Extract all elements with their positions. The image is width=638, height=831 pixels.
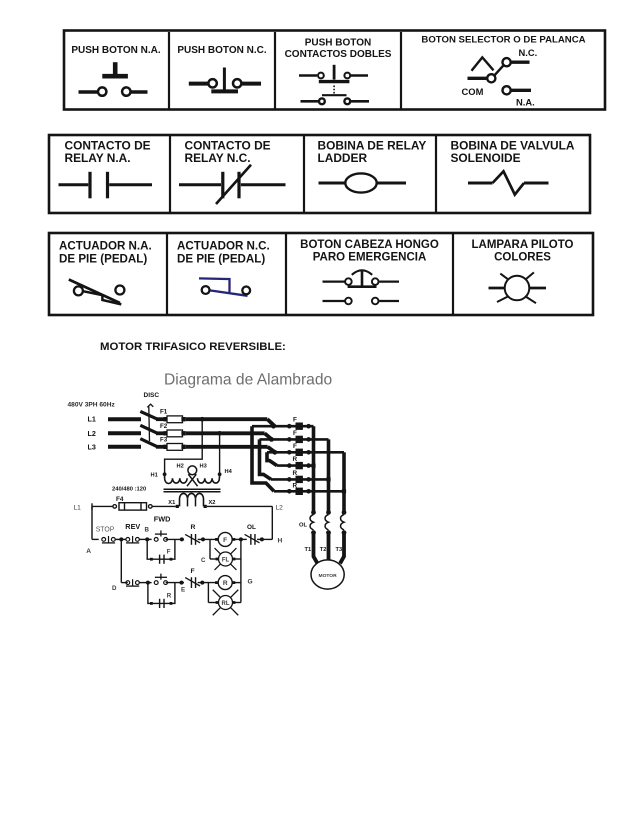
label H4 (225, 469, 233, 475)
wire control rail left (92, 503, 113, 509)
wire RL to common return (235, 602, 241, 604)
svg-text:L3: L3 (88, 443, 96, 452)
wire R contact to coil F (198, 537, 217, 541)
svg-text:CONTACTOS DOBLES: CONTACTOS DOBLES (285, 49, 392, 60)
fuse F2 (164, 430, 186, 437)
label X2 (209, 500, 216, 506)
wire F contact row 1 (252, 424, 314, 429)
svg-text:DE PIE (PEDAL): DE PIE (PEDAL) (177, 253, 265, 266)
wire L1 supply lead (108, 417, 141, 421)
wire FL to common return (235, 558, 241, 560)
wire motor lead 2 (327, 533, 331, 561)
wire R contact row 3 (274, 490, 344, 493)
wire motor lead 3 (340, 533, 344, 564)
node tap L2 to transformer (217, 431, 222, 436)
node X2 terminal (204, 505, 207, 508)
svg-text:R: R (223, 580, 228, 587)
wire F contact to coil R (198, 581, 217, 585)
svg-text:FL: FL (222, 557, 230, 563)
contactor R contact row 1 (287, 462, 311, 469)
pilot lamp FL (215, 548, 237, 570)
wire F contact row 3 (267, 450, 344, 455)
label ACTUADOR N.A. DE PIE (PEDAL) (59, 240, 152, 266)
svg-text:A: A (86, 548, 91, 555)
overload heater OL1 (310, 510, 316, 535)
interlock contact R (NC) (185, 534, 200, 545)
wire C to FL lamp (210, 558, 217, 560)
node R row 2 to T2 (326, 477, 330, 481)
label OL contact (247, 524, 256, 531)
svg-text:R: R (191, 524, 196, 531)
label F4 (116, 496, 124, 503)
svg-text:DE PIE (PEDAL): DE PIE (PEDAL) (59, 253, 147, 266)
svg-text:L2: L2 (88, 429, 96, 438)
node L1 (88, 415, 96, 424)
wire FWD to junction (166, 537, 184, 541)
heading MOTOR TRIFASICO REVERSIBLE (100, 341, 286, 353)
label L1 control (74, 504, 82, 511)
disconnect switch blade 2 (140, 425, 164, 433)
coil F (215, 532, 235, 546)
label fuse F3 (160, 436, 168, 443)
wire STOP to junction (115, 537, 126, 541)
wire left rail down to A (91, 506, 93, 539)
wire bracket phase3 to R top row (267, 452, 277, 465)
label contact R (row 2) (293, 470, 298, 477)
wire bracket phase1 to R bottom row (252, 426, 274, 491)
svg-text:F: F (167, 549, 171, 556)
svg-text:H: H (278, 537, 283, 544)
node R row 1 to T1 (311, 464, 315, 468)
solenoid valve symbol (468, 171, 549, 194)
svg-text:PARO EMERGENCIA: PARO EMERGENCIA (313, 251, 427, 263)
wire common return vertical (240, 539, 242, 602)
label H2 (177, 464, 184, 470)
label BOBINA DE RELAY LADDER (318, 138, 427, 165)
svg-text:MOTOR: MOTOR (319, 573, 338, 579)
svg-text:N.A.: N.A. (516, 97, 535, 108)
wire bracket phase2 to R middle row (260, 439, 272, 479)
node D (112, 585, 117, 592)
label CONTACTO DE RELAY N.C. (185, 138, 271, 165)
label PUSH BOTON N.C. (177, 45, 266, 56)
table row 1 frame (64, 31, 605, 110)
label T2 (320, 547, 327, 553)
disconnect mechanical link (147, 404, 153, 441)
label fuse F1 (160, 408, 168, 415)
svg-text:RELAY N.C.: RELAY N.C. (185, 151, 251, 165)
relay contact N.C. symbol (179, 165, 286, 204)
svg-text:OL: OL (247, 524, 256, 531)
svg-text:PUSH BOTON N.A.: PUSH BOTON N.A. (71, 45, 160, 56)
overload contact OL (NC) (245, 534, 260, 545)
pushbutton REV (NO) rung 2 (154, 574, 167, 585)
contactor F contact row 2 (287, 436, 311, 443)
interlock contact F (NC) rung 2 (185, 577, 200, 588)
wire vertical T3 (342, 452, 346, 511)
svg-text:H2: H2 (177, 464, 184, 470)
svg-text:RELAY N.A.: RELAY N.A. (65, 151, 131, 165)
table row 3 frame (49, 233, 593, 315)
label ACTUADOR N.C. DE PIE (PEDAL) (177, 240, 270, 266)
foot pedal actuator N.A. symbol (69, 280, 125, 305)
transformer core (164, 489, 221, 492)
node E (181, 586, 185, 593)
svg-text:LADDER: LADDER (318, 151, 368, 165)
wire phase 3 from fuse to F contactor (186, 447, 275, 453)
svg-text:N.C.: N.C. (519, 47, 538, 58)
svg-text:L1: L1 (74, 504, 82, 511)
svg-text:H1: H1 (151, 472, 158, 478)
holding contact R (NO) (160, 599, 164, 608)
contactor F contact row 1 (287, 423, 311, 430)
pushbutton FWD (NO) (154, 530, 167, 541)
svg-text:B: B (145, 527, 150, 534)
svg-text:D: D (112, 585, 117, 592)
label REV (125, 522, 140, 531)
pilot lamp symbol (489, 272, 547, 303)
svg-text:PUSH BOTON: PUSH BOTON (305, 38, 372, 49)
pushbutton STOP (NC) (102, 536, 115, 543)
label contact F (row 3) (293, 443, 297, 450)
svg-text:480V 3PH 60Hz: 480V 3PH 60Hz (68, 401, 116, 408)
contactor R contact row 2 (287, 476, 311, 483)
transformer secondary winding (180, 493, 204, 506)
svg-text:H3: H3 (200, 464, 207, 470)
foot pedal actuator N.C. symbol (navy) (199, 278, 250, 295)
wire OL to right rail (257, 537, 272, 541)
wire R holding branch (148, 583, 175, 605)
wire R contact row 1 (277, 464, 314, 467)
fuse F1 (164, 416, 186, 423)
svg-text:Diagrama de Alambrado: Diagrama de Alambrado (164, 372, 332, 389)
svg-text:X1: X1 (168, 500, 175, 506)
label F interlock rung 2 (191, 568, 195, 575)
svg-text:R: R (167, 593, 172, 600)
svg-text:T3: T3 (336, 547, 343, 553)
node L2 (88, 429, 96, 438)
svg-text:DISC: DISC (144, 392, 160, 399)
svg-text:F3: F3 (160, 436, 168, 443)
label T3 (336, 547, 343, 553)
wire F contact row 2 (260, 437, 329, 442)
node X1 terminal (176, 505, 179, 508)
wire transformer primary tap H4 (219, 433, 221, 472)
fuse F4 (113, 503, 152, 510)
label contact R (row 1) (293, 456, 298, 463)
push button double contacts symbol (299, 65, 369, 104)
label BOTON SELECTOR O DE PALANCA (421, 35, 585, 46)
wire motor lead 1 (314, 533, 318, 564)
svg-text:MOTOR TRIFASICO REVERSIBLE:: MOTOR TRIFASICO REVERSIBLE: (100, 341, 286, 353)
relay contact N.A. symbol (59, 172, 153, 199)
wire REV NO to junction (166, 581, 184, 585)
disconnect switch blade 1 (140, 411, 164, 419)
node L3 (88, 443, 96, 452)
svg-text:F: F (223, 537, 227, 544)
label BOBINA DE VALVULA SOLENOIDE (451, 138, 575, 165)
node R row 3 to T3 (342, 489, 346, 493)
svg-text:ACTUADOR N.A.: ACTUADOR N.A. (59, 240, 152, 253)
pilot lamp RL (213, 590, 239, 616)
contactor F contact row 3 (287, 449, 311, 456)
disconnect switch blade 3 (140, 439, 164, 447)
wire phase 1 from fuse to F contactor (186, 419, 275, 426)
wire X2 to L2 corner (207, 505, 272, 507)
svg-text:H4: H4 (225, 469, 233, 475)
wire phase 2 from fuse to F contactor (186, 433, 272, 439)
label H3 (200, 464, 207, 470)
label contact F (row 2) (293, 430, 297, 437)
label R holding contact (167, 593, 172, 600)
table row 2 frame (49, 135, 590, 213)
svg-text:G: G (248, 579, 253, 586)
motor M (311, 560, 344, 589)
svg-text:SOLENOIDE: SOLENOIDE (451, 151, 521, 165)
label L2 control (276, 504, 284, 511)
label CONTACTO DE RELAY N.A. (65, 138, 151, 165)
label PUSH BOTON CONTACTOS DOBLES (285, 38, 392, 61)
svg-text:REV: REV (125, 522, 140, 531)
svg-text:BOTON CABEZA HONGO: BOTON CABEZA HONGO (300, 239, 439, 251)
wire rung 1 start (92, 538, 99, 540)
holding contact F (NO) (160, 555, 164, 564)
label contact R (row 3) (293, 483, 298, 490)
svg-text:OL: OL (299, 522, 308, 528)
svg-text:240/480 :120: 240/480 :120 (112, 487, 146, 493)
svg-text:BOTON SELECTOR O DE PALANCA: BOTON SELECTOR O DE PALANCA (421, 35, 585, 46)
wire coil F to OL (234, 537, 247, 541)
wire F holding branch (147, 539, 175, 560)
svg-text:E: E (181, 586, 185, 593)
wire branch D from STOP junction (121, 539, 128, 582)
wire to REV button (139, 581, 151, 585)
contactor R contact row 3 (287, 488, 311, 495)
label X1 (168, 500, 175, 506)
svg-text:F2: F2 (160, 423, 168, 430)
label fuse F2 (160, 423, 168, 430)
node tap L1 to transformer (200, 417, 205, 422)
label DISC (144, 392, 160, 399)
label contact F (row 1) (293, 416, 297, 423)
wire vertical T2 (327, 439, 331, 511)
wire branch C (209, 539, 211, 559)
wire vertical T1 (312, 426, 316, 511)
svg-text:FWD: FWD (154, 514, 171, 523)
label 240/480 :120 (112, 487, 146, 493)
wire branch RL (208, 583, 216, 603)
svg-text:ACTUADOR N.C.: ACTUADOR N.C. (177, 240, 270, 253)
diagram title Diagrama de Alambrado (164, 372, 332, 389)
svg-text:RL: RL (222, 601, 230, 607)
svg-text:X2: X2 (209, 500, 216, 506)
label R interlock (191, 524, 196, 531)
svg-text:LAMPARA PILOTO: LAMPARA PILOTO (471, 239, 573, 251)
wire R contact row 2 (271, 478, 329, 481)
label LAMPARA PILOTO COLORES (471, 239, 573, 263)
pushbutton FWD interlock (NC) rung 2 (126, 579, 139, 586)
svg-text:T2: T2 (320, 547, 327, 553)
label H1 (151, 472, 158, 478)
node G (248, 579, 253, 586)
label F holding contact (167, 549, 171, 556)
label FWD (154, 514, 171, 523)
wire coil R to node G (234, 582, 241, 584)
overload heater OL3 (341, 510, 347, 535)
svg-text:L2: L2 (276, 504, 284, 511)
node H (278, 537, 283, 544)
emergency stop mushroom head button symbol (323, 270, 400, 304)
coil R (215, 576, 235, 590)
node H4 terminal (218, 472, 222, 476)
relay coil symbol (319, 173, 407, 192)
svg-text:F1: F1 (160, 408, 168, 415)
svg-text:PUSH BOTON N.C.: PUSH BOTON N.C. (177, 45, 266, 56)
svg-text:F: F (293, 416, 297, 423)
node A (86, 548, 91, 555)
label T1 (305, 547, 312, 553)
wire REV to FWD (139, 537, 151, 541)
label STOP (96, 527, 115, 534)
push button N.A. symbol (79, 62, 148, 96)
svg-text:T1: T1 (305, 547, 312, 553)
overload heater OL2 (325, 510, 331, 535)
wire right rail down to H (271, 506, 273, 539)
node H1 terminal (163, 472, 167, 476)
wire fuse F4 to X1 (152, 505, 175, 507)
wire L2 supply lead (108, 431, 141, 435)
fuse F3 (164, 444, 186, 451)
label 480V 3PH 60Hz (68, 401, 116, 408)
push button N.C. symbol (189, 68, 261, 92)
selector switch symbol (462, 47, 538, 107)
label PUSH BOTON N.A. (71, 45, 160, 56)
transformer primary coil (165, 466, 220, 486)
wire transformer primary tap H1 (165, 419, 203, 472)
svg-text:F: F (191, 568, 195, 575)
svg-text:C: C (201, 557, 206, 564)
node C (201, 557, 206, 564)
label OL heaters (299, 522, 308, 528)
node B (145, 527, 150, 534)
svg-text:COLORES: COLORES (494, 251, 551, 263)
label BOTON CABEZA HONGO PARO EMERGENCIA (300, 239, 439, 263)
svg-text:COM: COM (462, 86, 484, 97)
svg-text:STOP: STOP (96, 527, 115, 534)
svg-text:L1: L1 (88, 415, 96, 424)
wire L3 supply lead (108, 445, 141, 449)
pushbutton REV (NC) (126, 536, 139, 543)
